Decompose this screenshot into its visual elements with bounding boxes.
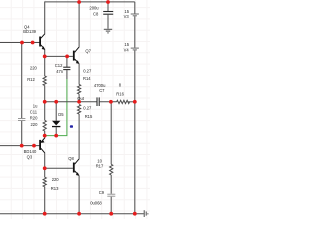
svg-text:BD140: BD140 bbox=[24, 149, 37, 154]
svg-text:R12: R12 bbox=[27, 77, 35, 82]
svg-text:C8: C8 bbox=[93, 11, 99, 16]
resistor R15 0.27 bbox=[78, 105, 81, 115]
resistor R20 220 bbox=[43, 120, 46, 131]
junction D5 cathode / green wire bbox=[54, 134, 58, 138]
junction bottom rail / R13 bbox=[43, 212, 47, 216]
battery V3 15 bbox=[131, 14, 139, 16]
junction top rail / Q7 collector bbox=[77, 0, 81, 4]
svg-text:220: 220 bbox=[30, 66, 38, 71]
transistor Q3 BD140 bbox=[24, 138, 45, 160]
junction Q7 base / C12 bbox=[65, 55, 69, 59]
wire Q3 emitter to node bbox=[44, 153, 46, 169]
wire Q3 base input bbox=[0, 145, 40, 147]
ground right end of bottom rail bbox=[144, 210, 148, 217]
wire Q4 base input bbox=[0, 42, 40, 44]
junction Q4 emitter / R12 bbox=[43, 55, 47, 59]
resistor R13 220 bbox=[43, 177, 46, 187]
svg-text:D5: D5 bbox=[58, 112, 64, 117]
svg-text:Q3: Q3 bbox=[27, 155, 33, 160]
svg-text:R14: R14 bbox=[83, 76, 91, 81]
junction Q4 base wire bbox=[31, 41, 35, 45]
junction Q3 base wire bbox=[32, 144, 36, 148]
svg-text:C12: C12 bbox=[55, 63, 63, 68]
green wire from C12 to lower rail node bbox=[45, 79, 67, 136]
capacitor C11 1u bbox=[18, 119, 25, 121]
svg-text:220: 220 bbox=[31, 122, 39, 127]
wire Q8 base row bbox=[45, 167, 73, 169]
wire C7 right to R16 bbox=[100, 101, 117, 103]
svg-text:10: 10 bbox=[97, 158, 102, 163]
wire R12 column bbox=[44, 56, 46, 101]
wire Q8 emitter bbox=[78, 175, 80, 213]
svg-text:0u068: 0u068 bbox=[90, 201, 102, 206]
junction bottom rail / Q8 emitter bbox=[77, 212, 81, 216]
junction bottom rail / supply column bbox=[133, 212, 137, 216]
blue probe marker bbox=[70, 125, 73, 128]
junction top rail / C8 bbox=[106, 0, 110, 4]
wire top rail bbox=[45, 2, 135, 34]
wire C12 top lead bbox=[66, 56, 68, 67]
svg-text:C7: C7 bbox=[99, 88, 105, 93]
svg-text:1u: 1u bbox=[33, 103, 38, 108]
svg-text:V3: V3 bbox=[124, 14, 130, 19]
wire C8 bottom lead bbox=[107, 15, 109, 29]
svg-text:R16: R16 bbox=[116, 91, 124, 96]
wire zobel column bbox=[110, 102, 112, 214]
svg-text:Q7: Q7 bbox=[85, 49, 91, 54]
wire out node row bbox=[45, 101, 97, 103]
wire R20 column bbox=[44, 102, 46, 136]
svg-text:R20: R20 bbox=[30, 116, 38, 121]
svg-text:R15: R15 bbox=[85, 114, 93, 119]
junction Q3 base / C11 column bbox=[20, 144, 24, 148]
diode D5 bbox=[52, 112, 64, 127]
resistor R16 8 bbox=[117, 100, 130, 103]
capacitor C9 0u068 bbox=[107, 194, 115, 196]
transistor Q4 BD139 bbox=[23, 25, 45, 50]
svg-text:R17: R17 bbox=[96, 164, 104, 169]
junction C7 / R16 / R17 bbox=[109, 100, 113, 104]
svg-text:V4: V4 bbox=[124, 47, 130, 52]
junction node Out / R14 R15 bbox=[77, 100, 81, 104]
wire emitter junction row bbox=[45, 49, 73, 56]
wire R16 right bbox=[128, 101, 135, 103]
wire C11 column bbox=[21, 43, 23, 146]
junction R16 / supply column bbox=[133, 100, 137, 104]
svg-text:0.27: 0.27 bbox=[83, 69, 92, 74]
wire Q3 collector bbox=[44, 136, 46, 139]
wire bottom rail bbox=[0, 213, 144, 215]
svg-text:C11: C11 bbox=[30, 109, 38, 114]
wire R15 to Q8 collector bbox=[78, 114, 80, 159]
resistor R14 0.27 bbox=[78, 85, 81, 95]
capacitor C8 200u bbox=[103, 12, 113, 15]
svg-text:0.27: 0.27 bbox=[83, 105, 92, 110]
battery V4 15 bbox=[131, 48, 139, 50]
resistor R17 10 bbox=[110, 164, 113, 175]
wire R13 column bbox=[44, 168, 46, 213]
svg-text:C9: C9 bbox=[99, 190, 105, 195]
transistor Q7 bbox=[73, 47, 92, 64]
transistor Q8 bbox=[68, 156, 79, 176]
svg-text:BD139: BD139 bbox=[23, 29, 36, 34]
resistor R12 220 bbox=[43, 76, 46, 86]
svg-text:200u: 200u bbox=[89, 5, 99, 10]
wire D5 cathode bbox=[55, 127, 57, 135]
wire Q7 collector bbox=[78, 2, 80, 48]
wire C8 top lead bbox=[107, 2, 109, 11]
wire R14 to out bbox=[78, 94, 80, 102]
wire V source column bbox=[134, 2, 136, 214]
wire Q7 emitter to R14 bbox=[78, 63, 80, 84]
svg-text:47n: 47n bbox=[56, 69, 64, 74]
junction Q3 collector / green wire bbox=[43, 134, 47, 138]
junction Q4 base / C11 column bbox=[20, 41, 24, 45]
svg-text:220: 220 bbox=[52, 177, 60, 182]
wire C12 bottom stub bbox=[66, 70, 68, 79]
capacitor C7 4700u bbox=[97, 97, 99, 106]
junction Q3 emitter / R13 / Q8 base bbox=[43, 166, 47, 170]
svg-text:R13: R13 bbox=[51, 186, 59, 191]
svg-text:Q8: Q8 bbox=[68, 156, 74, 161]
junction bottom rail / C9 bbox=[109, 212, 113, 216]
junction node Out / R20 bbox=[43, 100, 47, 104]
junction node Out / D5 bbox=[54, 100, 58, 104]
capacitor C12 47n bbox=[63, 67, 70, 69]
ground under C8 bbox=[104, 29, 112, 33]
wire D5 anode bbox=[55, 102, 57, 121]
